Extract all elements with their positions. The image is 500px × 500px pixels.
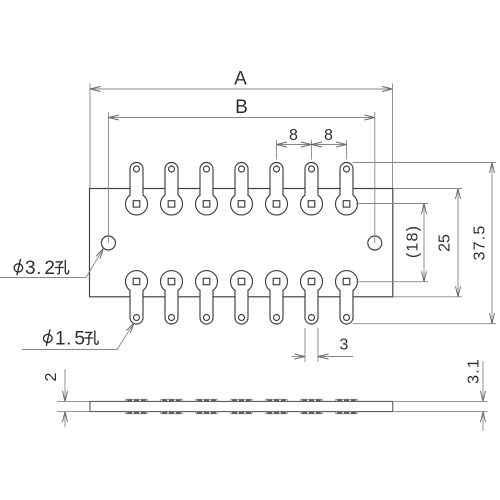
dimension 25 line <box>457 189 459 297</box>
dimension 3.1 line upper segment <box>482 361 484 401</box>
mounting hole right (phi 3.2) <box>368 236 382 250</box>
label phi1.5: phi symbol <box>44 330 53 346</box>
side view bar (plate edge-on) <box>90 401 393 411</box>
dimension 25 arrow top <box>456 189 461 200</box>
dimension 8-8 line <box>277 144 347 146</box>
dimension 3.1 arrow lower <box>481 412 486 423</box>
dimension 2 line lower segment <box>64 412 66 427</box>
dimension 3.1 arrow upper <box>481 391 486 402</box>
extension line plate bottom edge (25) <box>393 296 462 298</box>
extension line top lug hole row ((18)) <box>356 203 428 205</box>
dimension 3.1 line lower segment <box>482 412 484 431</box>
dimension 2 label <box>43 372 60 381</box>
terminal T8 bottom row <box>126 271 148 324</box>
label phi1.5: kanji kou (hole) <box>85 331 98 345</box>
dimension A line <box>90 88 393 90</box>
terminal T4 top row <box>231 163 253 215</box>
dimension 8 extension line at T7 <box>346 140 348 160</box>
terminal T10 bottom row <box>196 271 218 324</box>
terminal T6 top row <box>301 163 323 215</box>
plate outline (top view) <box>90 189 393 297</box>
dimension 2 extension line top <box>57 400 90 402</box>
leader phi3.2 arrow <box>96 249 103 259</box>
dimension 37.5 arrow top <box>490 163 495 174</box>
svg-text:1.5: 1.5 <box>55 329 85 350</box>
dimension 3.1 label <box>466 358 483 384</box>
dimension 8 extension line at T5 <box>276 140 278 160</box>
dimension 37.5 arrow bottom <box>490 313 495 324</box>
terminal T14 bottom row <box>336 271 358 324</box>
dimension A extension line right <box>392 84 394 189</box>
dimension 8 arrow right outer <box>336 142 347 147</box>
extension line plate top edge (25) <box>393 188 462 190</box>
dimension 3 line right tail <box>318 356 353 358</box>
dimension 3 arrow right <box>318 354 329 359</box>
dimension 8 arrow left outer <box>277 142 288 147</box>
svg-text:A: A <box>234 69 247 90</box>
dimension 2 arrow lower <box>63 412 68 423</box>
leader phi1.5 line <box>22 323 134 350</box>
dimension 37.5 label <box>472 225 489 261</box>
dimension 8 arrows middle <box>301 142 322 147</box>
svg-text:(18): (18) <box>405 225 422 258</box>
leader phi1.5 arrow <box>126 323 134 333</box>
label phi3.2: kanji kou (hole) <box>55 260 68 274</box>
dimension (18) line <box>423 204 425 282</box>
svg-text:3.1: 3.1 <box>466 358 483 384</box>
dimension 3 extension line right (stem edge) <box>317 328 319 362</box>
svg-text:3: 3 <box>340 337 349 354</box>
svg-text:2: 2 <box>43 372 60 381</box>
terminal T2 top row <box>161 163 183 215</box>
dimension 2 extension line bottom <box>57 411 90 413</box>
terminal T12 bottom row <box>266 271 288 324</box>
dimension 3 extension line left (stem edge) <box>304 328 306 362</box>
dimension 3 line left tail <box>292 356 306 358</box>
extension line top of lugs (37.5) <box>353 162 497 164</box>
terminal T3 top row <box>196 163 218 215</box>
extension line bottom lug hole row ((18)) <box>356 281 428 283</box>
dimension A arrow left <box>90 87 101 92</box>
dimension 3.1 extension line top <box>394 400 488 402</box>
dimension 25 label <box>437 234 454 252</box>
dimension 8 extension line at T6 <box>311 140 313 160</box>
dimension A arrow right <box>382 87 393 92</box>
dimension (18) label <box>405 225 422 258</box>
terminal T13 bottom row <box>301 271 323 324</box>
dimension 2 arrow upper <box>63 391 68 402</box>
side view lug bumps bottom <box>126 412 147 414</box>
terminal T5 top row <box>266 163 288 215</box>
dimension A extension line left <box>89 84 91 189</box>
svg-text:37.5: 37.5 <box>472 225 489 261</box>
dimension 2 line upper segment <box>64 369 66 401</box>
dimension (18) arrow bottom <box>422 271 427 282</box>
terminal T1 top row <box>126 163 148 215</box>
dimension 3.1 extension line bottom <box>394 411 488 413</box>
extension line bottom of lugs (37.5) <box>353 323 497 325</box>
dimension 25 arrow bottom <box>456 286 461 297</box>
label phi3.2: phi symbol <box>14 259 23 275</box>
side view lug bumps top <box>126 399 147 401</box>
dimension B arrow right <box>364 115 375 120</box>
dimension B line <box>108 117 374 119</box>
terminal T11 bottom row <box>231 271 253 324</box>
leader phi3.2 line <box>0 249 103 278</box>
terminal T7 top row <box>336 163 358 215</box>
dimension 3 arrow left <box>295 354 306 359</box>
dimension B extension line right <box>374 112 376 243</box>
dimension B arrow left <box>108 115 119 120</box>
svg-text:8: 8 <box>289 127 298 144</box>
dimension B extension line left <box>107 112 109 243</box>
svg-text:B: B <box>235 97 248 118</box>
dimension 37.5 line <box>491 163 493 324</box>
svg-text:25: 25 <box>437 234 454 252</box>
svg-text:3.2: 3.2 <box>25 258 55 279</box>
dimension (18) arrow top <box>422 204 427 215</box>
mounting hole left (phi 3.2) <box>101 236 115 250</box>
svg-text:8: 8 <box>324 127 333 144</box>
terminal T9 bottom row <box>161 271 183 324</box>
